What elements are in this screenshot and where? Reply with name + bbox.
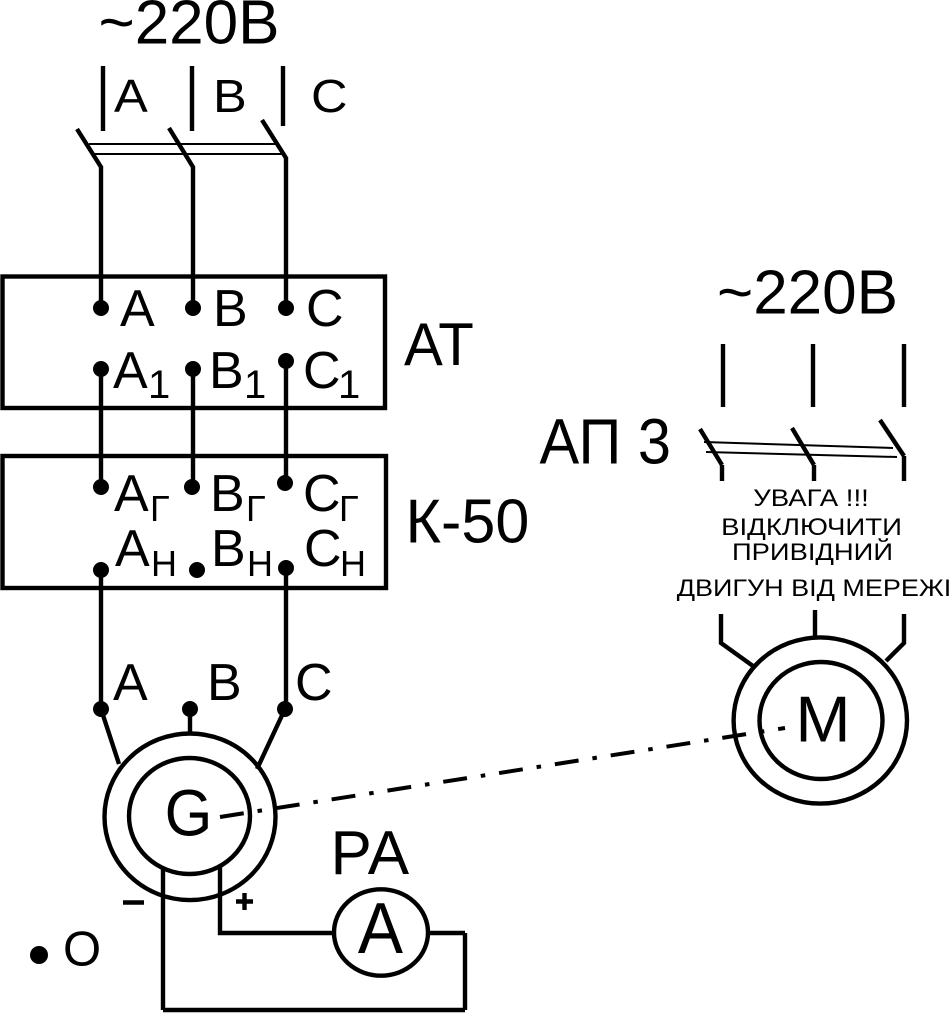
svg-text:УВАГА !!!: УВАГА !!! [753,486,869,512]
svg-text:1: 1 [338,363,360,407]
svg-text:АП 3: АП 3 [540,407,671,478]
svg-text:РА: РА [331,819,410,888]
svg-text:А: А [358,888,404,968]
svg-text:С: С [295,654,333,712]
svg-text:Г: Г [150,488,170,529]
svg-text:А: А [113,654,148,712]
svg-text:К-50: К-50 [406,487,530,557]
svg-text:ВІДКЛЮЧИТИ: ВІДКЛЮЧИТИ [721,515,902,541]
svg-text:~220В: ~220В [717,259,898,328]
svg-text:А: А [120,280,155,338]
svg-text:С: С [304,520,342,578]
svg-text:Н: Н [247,543,273,584]
svg-text:С: С [303,342,341,400]
svg-text:В: В [213,280,248,338]
svg-text:1: 1 [244,363,266,407]
svg-text:В: В [211,520,246,578]
svg-text:~220В: ~220В [98,0,279,58]
svg-text:G: G [165,775,213,850]
svg-text:Г: Г [246,488,266,529]
svg-text:М: М [795,683,850,755]
svg-text:Н: Н [151,543,177,584]
svg-text:А: А [115,520,150,578]
svg-text:С: С [311,71,348,122]
svg-text:Г: Г [339,488,359,529]
svg-text:А: А [114,465,149,523]
svg-text:АТ: АТ [404,310,474,378]
svg-text:О: О [63,923,101,977]
svg-text:В: В [207,654,242,712]
svg-text:С: С [303,465,341,523]
svg-text:1: 1 [148,363,170,407]
svg-text:В: В [213,71,247,122]
svg-text:В: В [210,465,245,523]
svg-text:А: А [113,342,148,400]
svg-text:В: В [209,342,244,400]
svg-text:А: А [114,71,149,122]
svg-text:ДВИГУН ВІД МЕРЕЖІ: ДВИГУН ВІД МЕРЕЖІ [677,575,949,601]
svg-text:Н: Н [340,543,366,584]
svg-text:С: С [306,280,344,338]
svg-text:ПРИВІДНИЙ: ПРИВІДНИЙ [732,538,893,566]
